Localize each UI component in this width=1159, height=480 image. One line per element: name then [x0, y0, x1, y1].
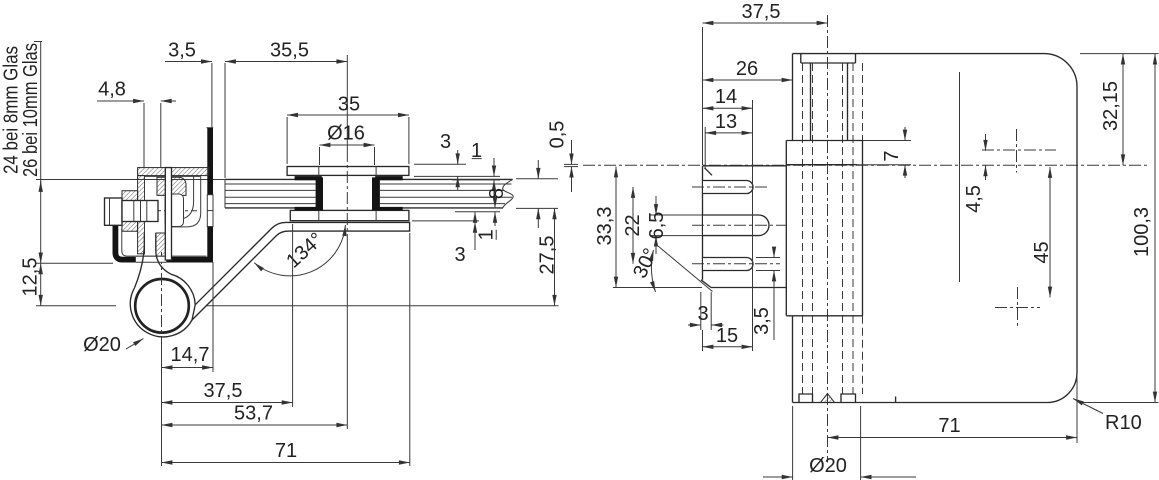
svg-text:13: 13 — [715, 111, 737, 133]
svg-text:22: 22 — [622, 214, 644, 236]
svg-text:71: 71 — [275, 440, 297, 462]
svg-text:37,5: 37,5 — [204, 380, 243, 402]
svg-text:Ø20: Ø20 — [809, 455, 847, 477]
svg-text:3: 3 — [454, 244, 465, 266]
svg-text:35,5: 35,5 — [270, 40, 309, 62]
svg-text:4,8: 4,8 — [98, 79, 126, 101]
svg-text:6,5: 6,5 — [646, 212, 668, 240]
svg-text:71: 71 — [938, 415, 960, 437]
svg-text:12,5: 12,5 — [20, 258, 42, 297]
svg-text:35: 35 — [338, 94, 360, 116]
svg-text:14,7: 14,7 — [171, 344, 210, 366]
svg-text:3,5: 3,5 — [751, 307, 773, 335]
svg-text:15: 15 — [716, 325, 738, 347]
svg-text:Ø16: Ø16 — [327, 123, 365, 145]
svg-text:8: 8 — [486, 188, 508, 199]
svg-text:1: 1 — [476, 229, 498, 240]
svg-text:7: 7 — [881, 150, 903, 161]
svg-text:3,5: 3,5 — [168, 40, 196, 62]
svg-text:32,15: 32,15 — [1100, 81, 1122, 131]
svg-text:37,5: 37,5 — [742, 1, 781, 23]
svg-text:26 bei 10mm Glas: 26 bei 10mm Glas — [20, 43, 42, 177]
svg-text:27,5: 27,5 — [537, 236, 559, 275]
svg-text:0,5: 0,5 — [547, 121, 569, 149]
svg-text:33,3: 33,3 — [594, 207, 616, 246]
svg-text:3: 3 — [697, 303, 708, 325]
svg-text:4,5: 4,5 — [963, 185, 985, 213]
svg-text:3: 3 — [440, 131, 451, 153]
svg-text:Ø20: Ø20 — [83, 334, 121, 356]
svg-text:100,3: 100,3 — [1131, 207, 1153, 257]
svg-text:14: 14 — [715, 86, 737, 108]
svg-text:26: 26 — [736, 58, 758, 80]
svg-text:53,7: 53,7 — [234, 403, 273, 425]
svg-text:45: 45 — [1031, 241, 1053, 263]
svg-text:R10: R10 — [1105, 412, 1142, 434]
